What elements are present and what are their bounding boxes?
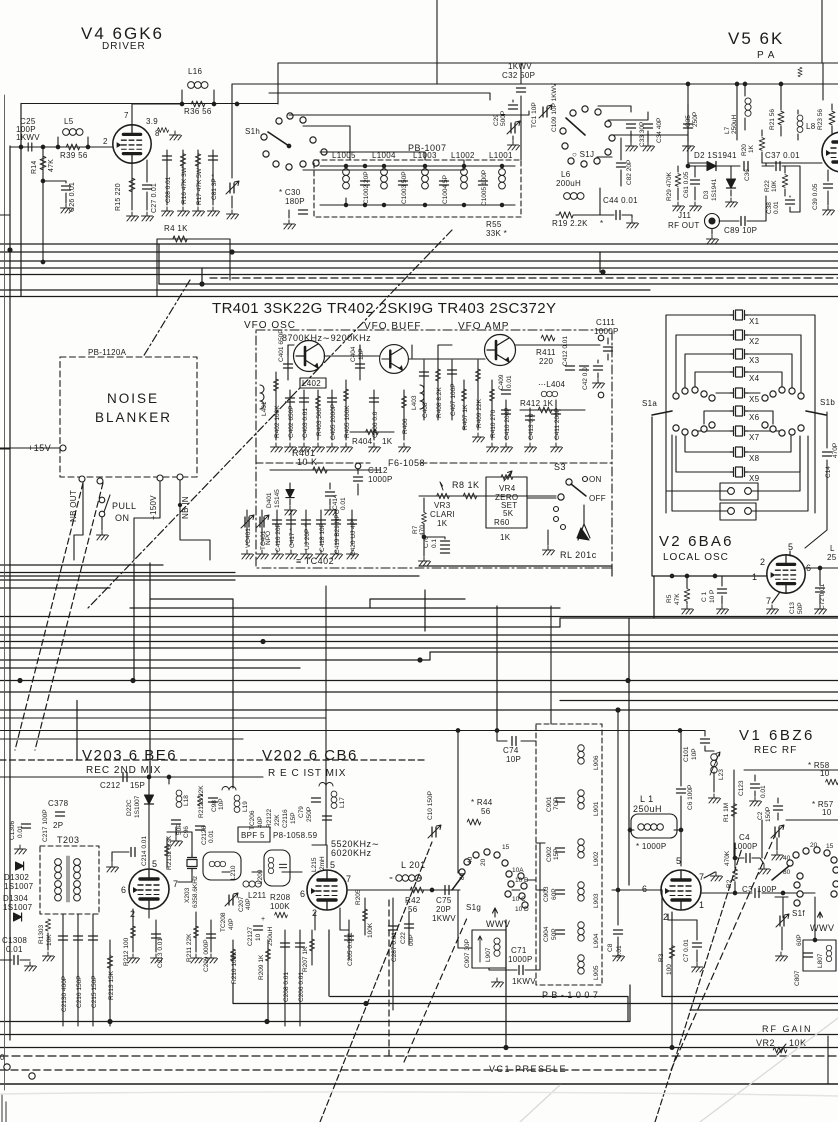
svg-text:80: 80 xyxy=(783,869,791,876)
svg-text:7: 7 xyxy=(699,872,705,882)
resistor R14 47K xyxy=(42,147,44,262)
bus band B line 702 xyxy=(560,700,838,702)
capacitor C1002 20P xyxy=(361,181,370,185)
capacitor C408 xyxy=(423,360,425,420)
svg-text:CLARI: CLARI xyxy=(430,510,455,519)
capacitor C1005 100P xyxy=(479,181,488,185)
inductor L19 xyxy=(234,795,240,812)
svg-text:R17 47K 5W: R17 47K 5W xyxy=(196,167,203,205)
svg-text:D401: D401 xyxy=(266,492,273,508)
left edge stubs mid xyxy=(0,448,10,450)
svg-text:1S1007: 1S1007 xyxy=(134,795,141,818)
svg-text:P8-1058.59: P8-1058.59 xyxy=(273,831,318,840)
svg-text:R408 8.2K: R408 8.2K xyxy=(436,387,443,418)
ground R15 xyxy=(127,212,139,221)
svg-text:C419 B29 NPO: C419 B29 NPO xyxy=(334,509,341,554)
svg-text:LOCAL OSC: LOCAL OSC xyxy=(663,552,729,563)
svg-text:C416 20P: C416 20P xyxy=(275,523,282,552)
svg-text:100: 100 xyxy=(666,964,673,975)
svg-text:C378: C378 xyxy=(48,799,69,808)
svg-text:10P: 10P xyxy=(218,798,225,810)
svg-text:20P: 20P xyxy=(436,905,451,914)
trimmer block 2 xyxy=(720,503,756,520)
svg-text:R E C IST MIX: R E C IST MIX xyxy=(268,768,346,779)
svg-text:R1 1M: R1 1M xyxy=(723,803,730,822)
ground trimmer xyxy=(227,210,239,219)
svg-text:L: L xyxy=(830,544,835,553)
wire C71 to box xyxy=(539,843,541,970)
vertical x425 xyxy=(424,590,426,631)
VFO top interconnect xyxy=(288,345,485,360)
wire V2 pin6 out xyxy=(804,567,838,569)
svg-text:C401 650P: C401 650P xyxy=(278,329,285,362)
wire S1h feed xyxy=(231,84,233,178)
svg-text:L6: L6 xyxy=(561,170,571,179)
svg-text:S1g: S1g xyxy=(466,903,481,912)
bus band B line 635 xyxy=(0,634,838,636)
crystal X3 xyxy=(730,349,748,359)
svg-text:10P: 10P xyxy=(506,755,521,764)
svg-text:2mH: 2mH xyxy=(319,856,326,870)
crystal X7 xyxy=(730,426,748,436)
svg-text:500P: 500P xyxy=(500,111,507,126)
svg-text:C2127: C2127 xyxy=(247,926,254,946)
wire vertical x437 top xyxy=(436,0,438,84)
svg-text:L907: L907 xyxy=(485,947,492,962)
resistor R409 22K xyxy=(477,360,479,430)
svg-text:1K: 1K xyxy=(500,533,511,542)
bus band B line 686 xyxy=(0,680,838,682)
svg-text:R42: R42 xyxy=(405,896,421,905)
potentiometer VR3 CLARI 1K xyxy=(437,493,450,499)
svg-text:6358.6KHz: 6358.6KHz xyxy=(192,876,199,908)
svg-text:C408: C408 xyxy=(422,402,429,418)
wire top right rail verticals xyxy=(688,63,823,166)
svg-text:0.01: 0.01 xyxy=(340,497,347,510)
svg-text:C79: C79 xyxy=(298,806,305,818)
scan crease bottom right xyxy=(520,1018,838,1122)
capacitor C402 650P xyxy=(289,390,291,440)
svg-text:0.01: 0.01 xyxy=(773,201,780,214)
svg-text:10A: 10A xyxy=(512,867,524,874)
bus band B line 699 xyxy=(0,691,838,693)
band A box verticals xyxy=(159,244,600,284)
svg-text:15P: 15P xyxy=(130,781,145,790)
svg-text:C28 0.01: C28 0.01 xyxy=(165,176,172,203)
svg-text:L402: L402 xyxy=(302,379,321,388)
capacitor C407 100P xyxy=(451,360,453,420)
bus band A line 7 xyxy=(0,289,650,291)
transistor TR402 xyxy=(380,345,409,374)
wire plate rail top y63 xyxy=(278,63,838,104)
capacitor C2126 0.01 xyxy=(196,826,205,830)
svg-text:C217 100P: C217 100P xyxy=(42,809,49,842)
svg-text:NB OUT: NB OUT xyxy=(69,490,78,522)
svg-text:C207: C207 xyxy=(238,896,245,912)
svg-text:7: 7 xyxy=(173,879,179,889)
svg-text:0.01: 0.01 xyxy=(506,375,513,388)
coil box PB-1007 lower xyxy=(536,724,602,985)
svg-text:0.01: 0.01 xyxy=(760,785,767,798)
svg-text:C26 0.01: C26 0.01 xyxy=(69,182,76,212)
svg-text:L17: L17 xyxy=(339,797,346,808)
svg-text:47K: 47K xyxy=(48,159,55,172)
capacitor C215 150P xyxy=(92,914,94,1026)
bus band B line 616 xyxy=(0,616,838,618)
svg-text:2: 2 xyxy=(760,557,766,567)
svg-text:C75: C75 xyxy=(436,896,452,905)
bus band A line 2 xyxy=(0,251,838,253)
svg-text:RF GAIN: RF GAIN xyxy=(762,1024,813,1034)
svg-text:6: 6 xyxy=(300,889,306,899)
bus band A line 6 xyxy=(159,283,838,285)
bus band B line 641 xyxy=(0,641,838,643)
svg-text:VC401: VC401 xyxy=(245,528,252,548)
capacitor C26 0.01 xyxy=(43,181,66,203)
dash linkage NB out a xyxy=(15,483,83,750)
svg-text:100K: 100K xyxy=(367,922,374,938)
svg-text:1KWV: 1KWV xyxy=(432,914,456,923)
svg-text:470P: 470P xyxy=(832,443,838,458)
resistor R19 2.2K xyxy=(559,212,573,218)
svg-text:X2: X2 xyxy=(749,337,760,346)
svg-text:R4 1K: R4 1K xyxy=(164,224,188,233)
capacitor C214 0.01 xyxy=(112,851,129,853)
svg-text:R412 1K: R412 1K xyxy=(520,399,554,408)
svg-text:1K: 1K xyxy=(382,437,393,446)
svg-text:33K *: 33K * xyxy=(486,229,507,238)
svg-text:WWV: WWV xyxy=(486,919,511,929)
svg-text:C82 20P: C82 20P xyxy=(626,160,633,185)
svg-text:C405 2000P: C405 2000P xyxy=(330,404,337,440)
svg-text:1S1941: 1S1941 xyxy=(711,178,718,201)
svg-text:D1302: D1302 xyxy=(4,873,29,882)
svg-text:REC 2ND MIX: REC 2ND MIX xyxy=(86,765,161,776)
svg-text:X3: X3 xyxy=(749,356,760,365)
diode D1302 1S1007 xyxy=(16,862,24,870)
svg-text:D3: D3 xyxy=(703,190,710,199)
svg-text:10: 10 xyxy=(822,808,832,817)
bus band B left stubs xyxy=(0,565,235,588)
svg-text:80: 80 xyxy=(459,872,466,880)
trimmer S1f xyxy=(776,914,789,927)
svg-text:5: 5 xyxy=(676,856,682,866)
svg-text:L904: L904 xyxy=(593,933,600,948)
svg-text:*: * xyxy=(600,219,603,228)
bus band C line 1084 xyxy=(0,1083,838,1085)
svg-text:R213 15K: R213 15K xyxy=(108,970,115,1000)
svg-text:C71: C71 xyxy=(511,946,527,955)
svg-text:L18: L18 xyxy=(183,795,190,806)
svg-text:C287 0.01: C287 0.01 xyxy=(391,932,398,962)
svg-text:6: 6 xyxy=(642,884,648,894)
svg-text:V1 6BZ6: V1 6BZ6 xyxy=(739,727,815,744)
svg-text:220: 220 xyxy=(539,357,553,366)
capacitor C6 100P xyxy=(680,731,682,866)
resistor R211 22K xyxy=(195,912,197,952)
bus band A line 5 xyxy=(0,274,838,276)
resistor R406 xyxy=(403,390,405,440)
trimmer preselect xyxy=(771,825,784,838)
svg-text:≡ TC402: ≡ TC402 xyxy=(296,556,334,566)
svg-text:D22C: D22C xyxy=(126,799,133,816)
svg-text:X7: X7 xyxy=(749,433,760,442)
wire S1h row4 xyxy=(320,152,425,160)
svg-text:C81 3P *: C81 3P * xyxy=(211,174,218,200)
long vertical x150 V203 feed xyxy=(149,563,151,777)
svg-text:R14: R14 xyxy=(31,161,38,174)
resistor R1303 10K xyxy=(45,919,50,931)
svg-text:L211: L211 xyxy=(248,891,267,900)
capacitor C212 15P xyxy=(0,776,263,778)
capacitor C412 0.01 xyxy=(566,366,575,370)
svg-text:R404: R404 xyxy=(352,437,373,446)
capacitor C422 xyxy=(594,366,603,370)
node dots band B xyxy=(131,679,135,683)
svg-text:7CP: 7CP xyxy=(553,797,560,810)
svg-text:C98: C98 xyxy=(211,800,218,812)
transistor TR403 xyxy=(485,335,516,366)
diode D22C 1S1007 xyxy=(148,777,150,868)
bus band B line 663 xyxy=(0,652,838,660)
svg-text:PULL: PULL xyxy=(112,501,137,511)
svg-text:R23 56: R23 56 xyxy=(817,109,824,130)
capacitor C901 7CP xyxy=(556,798,565,802)
svg-text:S1f: S1f xyxy=(792,909,805,918)
svg-text:1000P: 1000P xyxy=(508,955,533,964)
wire V2 output to right xyxy=(652,417,766,576)
svg-text:10K: 10K xyxy=(46,934,53,946)
svg-text:L807: L807 xyxy=(817,953,824,968)
bus band C line 996 xyxy=(330,890,838,1022)
svg-text:REC RF: REC RF xyxy=(754,745,797,756)
svg-text:0.1: 0.1 xyxy=(431,539,438,548)
svg-text:R39 56: R39 56 xyxy=(60,151,88,160)
svg-text:X4: X4 xyxy=(749,374,760,383)
resistor R408 8.2K xyxy=(437,360,439,420)
svg-text:D2 1S1941: D2 1S1941 xyxy=(694,151,737,160)
ground V1 pin7 xyxy=(704,872,715,878)
switch S1J contacts xyxy=(570,110,576,116)
wire mid right rail xyxy=(688,162,822,164)
svg-text:25: 25 xyxy=(827,553,837,562)
svg-text:1S1007: 1S1007 xyxy=(3,903,33,912)
tube V2 xyxy=(767,555,805,593)
capacitor C34 40P xyxy=(644,124,653,128)
svg-text:10P: 10P xyxy=(358,348,365,360)
svg-text:7: 7 xyxy=(124,111,129,120)
capacitor C96 50P xyxy=(172,820,181,824)
svg-text:C2116: C2116 xyxy=(282,809,289,828)
capacitor C208 0.01 xyxy=(284,930,286,1026)
svg-text:R2132 3.3K: R2132 3.3K xyxy=(166,835,173,870)
svg-text:C409: C409 xyxy=(498,374,505,390)
svg-text:C206 0.01: C206 0.01 xyxy=(298,972,305,1002)
svg-text:R7: R7 xyxy=(412,525,419,534)
svg-text:S3: S3 xyxy=(554,462,566,472)
resistor R411 220 xyxy=(515,344,600,346)
bus band B line 672 xyxy=(0,667,300,669)
svg-text:1000P: 1000P xyxy=(594,327,619,336)
svg-text:L901: L901 xyxy=(593,801,600,816)
svg-text:C34 40P: C34 40P xyxy=(656,118,663,143)
svg-text:X203: X203 xyxy=(184,887,191,903)
svg-text:R5: R5 xyxy=(666,594,673,603)
wire V203 plate top xyxy=(149,832,192,918)
svg-text:1KWV: 1KWV xyxy=(512,977,536,986)
dash diagonal bottom 1 xyxy=(320,842,432,1122)
VFO dashed enclosure xyxy=(256,330,612,568)
dashed receiver box top xyxy=(0,759,425,761)
ground C26 xyxy=(61,204,73,213)
capacitor C411 200P xyxy=(555,400,557,440)
inductor L906 xyxy=(578,745,584,764)
svg-text:R19 2.2K: R19 2.2K xyxy=(552,219,588,228)
svg-text:10 P: 10 P xyxy=(709,590,716,603)
svg-text:R403 560: R403 560 xyxy=(316,407,323,436)
svg-text:VR3: VR3 xyxy=(434,501,451,510)
svg-text:250uH: 250uH xyxy=(633,804,662,814)
svg-text:TC1 10P: TC1 10P xyxy=(531,102,538,128)
svg-text:L905: L905 xyxy=(593,965,600,980)
capacitor C401 650P xyxy=(287,345,289,380)
svg-text:UJ 20P *: UJ 20P * xyxy=(304,524,311,550)
switch S1g contacts xyxy=(459,869,465,875)
svg-text:6: 6 xyxy=(121,885,127,895)
resistor R212 100 xyxy=(132,909,134,952)
inductor L904 xyxy=(578,922,584,941)
svg-text:R21 56: R21 56 xyxy=(769,109,776,130)
svg-text:S1a: S1a xyxy=(642,399,657,408)
svg-text:C32 50P: C32 50P xyxy=(502,71,535,80)
dash linkage NB out b xyxy=(35,483,103,750)
svg-text:40: 40 xyxy=(783,855,791,862)
svg-text:40P: 40P xyxy=(245,898,252,910)
resistor R412 1K xyxy=(520,409,585,411)
capacitor C1004 5P xyxy=(440,181,449,185)
svg-text:40P: 40P xyxy=(257,816,264,828)
svg-text:L210: L210 xyxy=(230,865,237,880)
wire vertical x618 xyxy=(617,710,619,925)
svg-text:C208 0.01: C208 0.01 xyxy=(283,972,290,1002)
bus band C line 1034 xyxy=(0,1034,838,1036)
svg-text:00P: 00P xyxy=(408,934,415,946)
resistor R404 1K xyxy=(350,431,394,433)
resistor R39 56 xyxy=(66,144,80,150)
svg-text:VFO OSC: VFO OSC xyxy=(244,320,296,331)
switch S1J rotor xyxy=(566,118,585,135)
resistor R15 220 cathode xyxy=(131,163,133,210)
wire X203 to tube xyxy=(178,838,192,882)
svg-text:C402 650P: C402 650P xyxy=(288,405,295,438)
svg-text:C42 0.0: C42 0.0 xyxy=(582,367,589,390)
svg-text:X8: X8 xyxy=(749,454,760,463)
wire V1 pin2 xyxy=(668,912,697,920)
svg-text:+: + xyxy=(261,916,265,923)
coil box rails xyxy=(320,166,515,205)
svg-text:47K: 47K xyxy=(674,593,681,605)
capacitor C74 10P xyxy=(0,718,705,741)
filter BPF 5 xyxy=(238,827,270,842)
capacitor C2127 10 xyxy=(254,926,263,930)
capacitor C419 B29 NPO xyxy=(335,510,337,545)
svg-text:VR2: VR2 xyxy=(756,1038,775,1048)
svg-text:C7 0.01: C7 0.01 xyxy=(683,939,690,962)
svg-text:R20: R20 xyxy=(741,144,748,156)
svg-text:R2122: R2122 xyxy=(266,808,273,828)
wire V2 cathode row xyxy=(670,574,674,578)
inductor L905 xyxy=(578,955,584,974)
resistor R213 15K xyxy=(109,940,111,1026)
inductor L903 xyxy=(578,882,584,901)
svg-text:470: 470 xyxy=(419,525,426,536)
resistor on V5 screen xyxy=(798,67,802,77)
svg-text:S1h: S1h xyxy=(245,127,260,136)
capacitor C213 0.01 xyxy=(155,920,157,952)
svg-text:R406: R406 xyxy=(402,418,409,434)
left edge vertical rail 1 xyxy=(9,146,11,1040)
svg-text:7: 7 xyxy=(766,596,772,606)
svg-text:1S1007: 1S1007 xyxy=(4,882,34,891)
svg-text:C1002 20P: C1002 20P xyxy=(363,171,370,204)
capacitor C27 0.01 xyxy=(146,160,148,210)
capacitor C416 20P xyxy=(276,510,278,545)
svg-text:C33 30P: C33 30P xyxy=(639,122,646,147)
svg-text:C61 0.05: C61 0.05 xyxy=(683,171,690,198)
svg-text:L23: L23 xyxy=(718,769,725,780)
svg-text:V202 6 CB6: V202 6 CB6 xyxy=(262,747,358,764)
svg-text:OFF: OFF xyxy=(589,494,606,503)
svg-text:R210 100K: R210 100K xyxy=(231,951,238,984)
svg-text:3.9: 3.9 xyxy=(146,117,158,126)
switch S1h rotor xyxy=(268,132,289,146)
svg-text:C38: C38 xyxy=(766,202,773,214)
svg-text:DRIVER: DRIVER xyxy=(102,41,146,52)
capacitor C75 20P 1KWV xyxy=(445,886,449,895)
node dots band A xyxy=(8,248,12,252)
crystal X5 xyxy=(730,388,748,398)
resistor R3 100 xyxy=(671,912,673,1048)
bus band C line 1021 xyxy=(0,985,630,1022)
wire S1f feed xyxy=(775,897,788,918)
svg-text:C14: C14 xyxy=(825,466,832,478)
capacitor C98 10P xyxy=(209,798,218,802)
dash-dot diagonal upper left xyxy=(88,230,452,608)
svg-text:C901: C901 xyxy=(546,796,553,812)
svg-text:RF OUT: RF OUT xyxy=(668,221,700,230)
capacitor C206 0.01 xyxy=(299,930,301,1026)
svg-text:250P: 250P xyxy=(692,112,699,127)
svg-text:250P: 250P xyxy=(306,807,313,822)
svg-text:TC208: TC208 xyxy=(220,912,227,932)
svg-text:C6 100P: C6 100P xyxy=(687,785,694,810)
capacitor C405 2000P xyxy=(331,390,333,440)
crystal X9 xyxy=(730,467,748,477)
svg-text:50P: 50P xyxy=(176,823,183,835)
svg-text:C37 0.01: C37 0.01 xyxy=(765,151,800,160)
resistor R17 47K 5W xyxy=(197,150,199,205)
svg-text:S1b: S1b xyxy=(820,398,835,407)
capacitor C421 0.0 xyxy=(580,366,589,370)
svg-text:C29: C29 xyxy=(493,114,500,126)
svg-text:22K: 22K xyxy=(274,814,281,826)
svg-text:P A: P A xyxy=(757,50,775,61)
wire S1h to C29 xyxy=(269,93,490,100)
inductor L907 xyxy=(472,930,506,968)
inductor L902 xyxy=(578,839,584,858)
svg-text:○ S1J: ○ S1J xyxy=(572,150,594,159)
resistor R209 1K xyxy=(267,940,269,975)
